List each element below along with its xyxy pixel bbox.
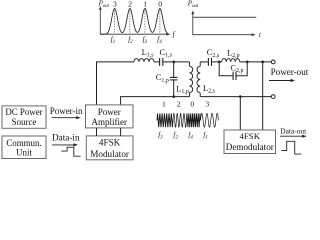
arrow: Data-out — [280, 135, 303, 137]
wire: modulator to PA left — [96, 128, 98, 136]
4FSK modulated signal waveform — [157, 113, 201, 127]
transformer primary coil L1,p — [190, 62, 193, 97]
svg-text:3: 3 — [113, 0, 117, 8]
svg-text:f1: f1 — [111, 35, 115, 45]
svg-text:Data-out: Data-out — [280, 127, 307, 136]
wire: L2,s top to C2,s — [200, 61, 208, 63]
svg-text:Power-out: Power-out — [271, 67, 309, 77]
node: tank left junction — [218, 61, 221, 64]
svg-text:0: 0 — [190, 100, 194, 109]
terminal: Power-out negative — [271, 95, 275, 99]
svg-text:C2,s: C2,s — [207, 48, 220, 59]
frequency tick labels f1 f2 f3 f4 — [111, 35, 162, 45]
node: demodulator top tap junction — [261, 61, 264, 64]
wire: C1,s to L1,p top — [163, 61, 190, 63]
wire: demodulator tap from top rail — [262, 62, 264, 130]
waveform frequency labels — [158, 131, 208, 141]
svg-text:C2,p: C2,p — [230, 63, 243, 74]
svg-text:0: 0 — [158, 0, 162, 8]
wire: C2,p branch right — [236, 62, 247, 76]
box: Power Amplifier — [86, 105, 134, 128]
svg-text:3: 3 — [205, 100, 209, 109]
svg-text:Pout: Pout — [98, 0, 110, 9]
wire: modulator to PA right — [120, 128, 122, 136]
box: DC Power Source — [2, 106, 46, 128]
peak symbol labels 3 2 1 0 — [113, 0, 162, 8]
svg-text:Demodulator: Demodulator — [226, 142, 274, 152]
box: 4FSK Demodulator — [224, 130, 276, 154]
svg-text:Commun.: Commun. — [6, 138, 41, 148]
wire: C1,p branch upper — [173, 62, 175, 77]
spectrum graph x-axis — [100, 33, 167, 35]
output power graph y-axis — [192, 14, 194, 35]
output power graph x-axis — [192, 34, 251, 36]
svg-text:Unit: Unit — [16, 148, 32, 158]
svg-text:1: 1 — [143, 0, 147, 8]
wire: L2,p to top rail right — [240, 61, 272, 63]
svg-text:Source: Source — [12, 117, 37, 127]
wire: C2,s to tank left junction — [212, 61, 222, 63]
capacitor C2,s — [208, 58, 211, 66]
spectrum graph y-axis — [99, 9, 101, 34]
capacitor C1,s — [160, 58, 163, 66]
svg-text:4FSK: 4FSK — [99, 138, 121, 148]
svg-text:f1: f1 — [203, 131, 207, 141]
svg-text:f2: f2 — [173, 131, 178, 141]
box: 4FSK Modulator — [86, 136, 133, 160]
svg-text:Data-in: Data-in — [52, 132, 80, 142]
svg-text:C1,p: C1,p — [156, 73, 169, 84]
capacitor C1,p — [170, 77, 178, 80]
svg-text:Power-in: Power-in — [50, 106, 83, 116]
wire: C1,p branch lower — [173, 80, 175, 97]
svg-text:L1,s: L1,s — [142, 48, 155, 59]
node: C1,p tap junction — [172, 61, 175, 64]
spectrum curve: four 4FSK tone peaks — [101, 9, 168, 35]
icon: Data-out digital waveform — [281, 141, 301, 154]
capacitor C2,p — [233, 72, 236, 80]
svg-text:Modulator: Modulator — [90, 149, 129, 159]
svg-text:f4: f4 — [157, 35, 162, 45]
svg-text:DC Power: DC Power — [5, 107, 42, 117]
svg-text:L2,p: L2,p — [227, 48, 240, 59]
wire: L1,s to C1,s — [154, 61, 159, 63]
svg-text:1: 1 — [162, 100, 166, 109]
wire: right bottom rail — [200, 96, 271, 98]
wire: PA left terminal up and top rail to L1,s — [97, 62, 135, 105]
svg-text:f3: f3 — [158, 131, 163, 141]
svg-text:C1,s: C1,s — [160, 48, 173, 59]
svg-text:f2: f2 — [128, 35, 133, 45]
dashed peak center lines — [115, 11, 160, 34]
box: Commun. Unit — [2, 136, 46, 159]
svg-text:L2,s: L2,s — [203, 84, 216, 95]
svg-text:2: 2 — [128, 0, 132, 8]
terminal: Power-out positive — [271, 60, 275, 64]
wire: C2,p branch left — [219, 62, 233, 76]
node: C1,p bottom junction — [172, 95, 175, 98]
icon: Data-in digital waveform — [61, 147, 80, 156]
arrow: Power-out — [269, 80, 292, 82]
svg-text:Pout: Pout — [187, 0, 199, 9]
wire: left bottom rail down to PA right terminal — [121, 97, 190, 105]
arrow: Data-in — [52, 144, 74, 146]
svg-text:Amplifier: Amplifier — [92, 117, 128, 127]
inductor L1,s — [134, 59, 154, 62]
svg-text:f3: f3 — [143, 35, 148, 45]
node: demodulator bottom tap junction — [239, 95, 242, 98]
inductor L2,p — [222, 59, 240, 62]
node: tank right junction — [246, 61, 249, 64]
constant output power line — [193, 16, 256, 18]
svg-text:2: 2 — [177, 100, 181, 109]
svg-text:L1,p: L1,p — [176, 84, 189, 95]
wire: demodulator tap from bottom rail — [239, 97, 241, 130]
transformer secondary coil L2,s — [197, 62, 200, 97]
arrow: Power-in — [52, 117, 78, 119]
svg-text:t: t — [259, 31, 262, 39]
svg-text:4FSK: 4FSK — [240, 131, 261, 141]
svg-text:f4: f4 — [188, 131, 193, 141]
waveform symbol labels 1 2 0 3 — [162, 100, 209, 109]
svg-text:Power: Power — [98, 107, 121, 117]
svg-text:f: f — [173, 31, 176, 39]
